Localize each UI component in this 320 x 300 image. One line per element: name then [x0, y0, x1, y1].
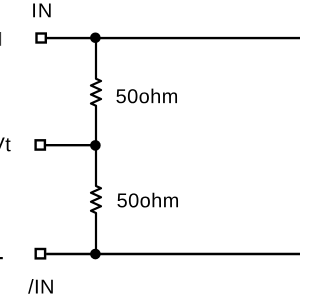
wire: Vt terminal to middle junction — [46, 144, 96, 146]
terminal pin IN (square) — [37, 34, 46, 43]
terminal pin Vt (square) — [36, 140, 45, 149]
node Vt label (partially cut off at left edge) — [0, 137, 11, 151]
wire: /IN terminal to right edge (bottom rail) — [46, 253, 300, 255]
cut-off label fragment (left edge, top) — [0, 32, 1, 46]
wire: IN terminal to right edge (top rail) — [47, 37, 300, 39]
junction dot (bottom node) — [90, 249, 101, 260]
cut-off label fragment (left edge, bottom) — [0, 257, 3, 259]
value label 50ohm (R2) — [117, 193, 178, 208]
junction dot (middle node) — [90, 140, 101, 151]
resistor R1 50ohm (zigzag) with leads — [91, 38, 101, 145]
value label 50ohm (R1) — [116, 89, 177, 104]
terminal pin /IN (square) — [36, 249, 45, 258]
node /IN label — [28, 279, 53, 294]
junction dot (top node) — [90, 33, 101, 44]
resistor R2 50ohm (zigzag) with leads — [91, 145, 101, 254]
node IN label — [33, 4, 51, 18]
